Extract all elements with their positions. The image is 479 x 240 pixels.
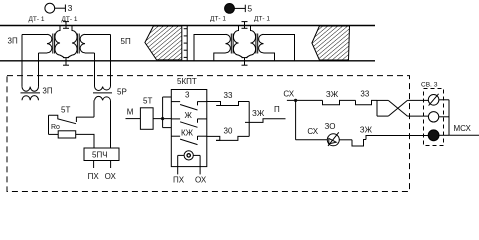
wire lamp2 right [439, 116, 449, 118]
contact KZh of KPT [171, 136, 207, 145]
wire lamp1 right [439, 99, 449, 101]
signal winding, left pair left bond [47, 34, 52, 53]
wire to lamp 1 [407, 99, 428, 101]
svg-text:СХ: СХ [283, 90, 294, 99]
wire bus vertical [162, 97, 164, 128]
transformer 3P secondary winding [22, 96, 39, 101]
wire bus stub top [163, 96, 172, 98]
wire down to transformer 5R inner [94, 53, 96, 87]
wire rail top [0, 25, 375, 27]
signal winding, mid pair left bond [226, 34, 231, 53]
svg-text:3: 3 [185, 91, 190, 100]
signal head 5 [225, 3, 246, 13]
contact 33 row lower [216, 102, 249, 106]
contact 33 row1 [356, 100, 378, 104]
wire KPT terminal OH [199, 155, 201, 174]
insulated joint top, left pair [63, 22, 69, 29]
motor of KPT [178, 151, 200, 160]
signal winding, left pair right bond [80, 34, 85, 53]
signal head 3 [45, 3, 66, 13]
impedance bond DT-1 main winding, left pair right [68, 26, 78, 58]
wire 5R left terminal down [93, 100, 95, 117]
svg-text:МСХ: МСХ [454, 124, 472, 133]
wire 5R right terminal down to 5PCh [110, 100, 112, 148]
lamp 3O [327, 132, 339, 146]
hatched block 1 [145, 26, 182, 60]
wire bond left bottom terminal [39, 52, 48, 54]
signal winding, mid pair right bond [259, 34, 264, 53]
svg-text:3: 3 [68, 3, 73, 13]
hatch ladder ticks [184, 26, 188, 61]
wire resistor right lead [76, 134, 94, 148]
wire lamp bus bar [448, 100, 450, 136]
transformer 3P core [21, 92, 41, 94]
svg-text:5ПЧ: 5ПЧ [92, 151, 108, 160]
transformer 5R primary winding [95, 87, 111, 91]
svg-text:ПХ: ПХ [173, 176, 185, 185]
svg-text:СВ. З: СВ. З [421, 82, 438, 89]
wire cross lower left [377, 115, 388, 117]
svg-text:ЗО: ЗО [325, 122, 336, 131]
wire bond right top terminal [85, 34, 111, 36]
svg-text:33: 33 [360, 90, 369, 99]
wire bus stub bottom [163, 127, 172, 129]
svg-text:5П: 5П [121, 37, 131, 46]
contact 30 row wire [207, 136, 220, 140]
svg-text:Ж: Ж [185, 111, 193, 120]
wire row2 left [296, 139, 328, 141]
block 5PCh [84, 148, 119, 161]
impedance bond DT-1 main winding, mid pair right [246, 26, 256, 58]
svg-text:СХ: СХ [307, 127, 318, 136]
wire mid bond left top terminal [194, 35, 226, 61]
contact 3Zh to P [245, 119, 286, 123]
contact 3Zh row2 staple [352, 140, 366, 147]
wire bond right bottom terminal [85, 52, 95, 54]
contact 30 row lower [216, 136, 249, 140]
svg-text:ДТ- 1: ДТ- 1 [254, 15, 270, 22]
contact Zh of KPT [171, 119, 207, 128]
svg-text:5Т: 5Т [61, 106, 70, 115]
wire 5PCh terminal OH [110, 161, 112, 169]
svg-text:5: 5 [247, 4, 252, 14]
svg-text:ОХ: ОХ [105, 172, 117, 181]
wire 5PCh terminal PH [93, 161, 95, 169]
wire down to transformer 5R outer [110, 35, 112, 87]
insulated joint top, mid pair [242, 22, 248, 29]
wire M feed [126, 118, 141, 120]
insulated joint bottom, mid pair [242, 58, 248, 66]
svg-text:30: 30 [224, 127, 233, 136]
svg-text:5КПТ: 5КПТ [177, 77, 197, 86]
hatched block 2 [312, 26, 350, 60]
svg-text:ДТ- 1: ДТ- 1 [210, 15, 226, 22]
wire lamp3 right [439, 134, 449, 136]
wire resistor left lead [49, 133, 59, 135]
wire down to transformer 3P inner [38, 53, 40, 87]
transformer 3P primary winding [22, 87, 39, 92]
core lines, mid pair left bond [231, 34, 233, 54]
wire 5T to KPT [153, 118, 171, 120]
wire mid bond left bottom terminal [214, 53, 226, 61]
wire row2 mid [339, 139, 352, 141]
wire vertical join rows [248, 102, 250, 137]
contact 5T blade [49, 115, 77, 123]
wire left branch down to resistor [48, 115, 50, 134]
svg-text:ЗЖ: ЗЖ [360, 126, 373, 135]
svg-text:М: М [127, 108, 134, 117]
contact 33 row wire [207, 102, 221, 106]
svg-text:5Р: 5Р [117, 88, 127, 97]
contact 3Zh row1 [323, 100, 356, 104]
insulated joint bottom, left pair [63, 58, 69, 66]
wire cross upper left [377, 99, 388, 101]
transformer 5R secondary winding [95, 96, 111, 100]
wire SH branch vertical [295, 100, 297, 139]
node junction M bus [161, 117, 164, 120]
wire row2 to lamp3 [366, 136, 428, 140]
lamp filled [428, 130, 439, 141]
wire MSH output [449, 134, 479, 136]
svg-text:ЗЖ: ЗЖ [252, 109, 265, 118]
svg-text:П: П [274, 105, 280, 114]
svg-text:ЗЖ: ЗЖ [326, 90, 339, 99]
svg-text:КЖ: КЖ [181, 129, 194, 138]
block 5KPT [171, 90, 207, 167]
contact Z of KPT [171, 101, 207, 110]
wire crossing diagonal down [388, 100, 407, 116]
svg-text:ПХ: ПХ [88, 172, 100, 181]
svg-text:3П: 3П [42, 87, 52, 96]
impedance bond DT-1 main winding, mid pair left [233, 26, 243, 58]
svg-text:ОХ: ОХ [195, 176, 207, 185]
wire cross split vertical [376, 100, 378, 116]
svg-text:33: 33 [224, 91, 233, 100]
wire to lamp 2 [407, 115, 428, 117]
wire rail bottom [0, 60, 375, 62]
wire SH row1 [287, 99, 323, 101]
node SH junction [294, 99, 297, 102]
wire down to transformer 3P outer [21, 35, 23, 87]
wire mid bond right bottom terminal [264, 53, 275, 61]
relay cabinet dashed box [7, 76, 410, 192]
svg-text:5Т: 5Т [143, 97, 152, 106]
svg-text:Rо: Rо [51, 124, 60, 131]
wire bond left top terminal [22, 34, 47, 36]
transformer 5R core [93, 92, 112, 94]
core lines, left pair right bond [77, 34, 79, 54]
contact 5T fixed terminal [75, 117, 77, 122]
wire to contact 5T [76, 116, 94, 118]
svg-text:3П: 3П [8, 37, 18, 46]
core lines, mid pair right bond [256, 34, 258, 54]
wire mid bond right top terminal [264, 35, 295, 61]
signal lamps dashed box [424, 89, 444, 146]
wire KPT terminal PH [177, 155, 179, 174]
core lines, left pair left bond [53, 34, 55, 54]
wire crossing diagonal up [388, 100, 407, 116]
resistor Ro [58, 131, 75, 138]
lamp green with slash [428, 94, 439, 106]
box 5T transmitter [140, 108, 153, 130]
lamp middle [428, 112, 438, 122]
impedance bond DT-1 main winding, left pair left [55, 26, 65, 58]
svg-text:ДТ- 1: ДТ- 1 [29, 16, 45, 23]
